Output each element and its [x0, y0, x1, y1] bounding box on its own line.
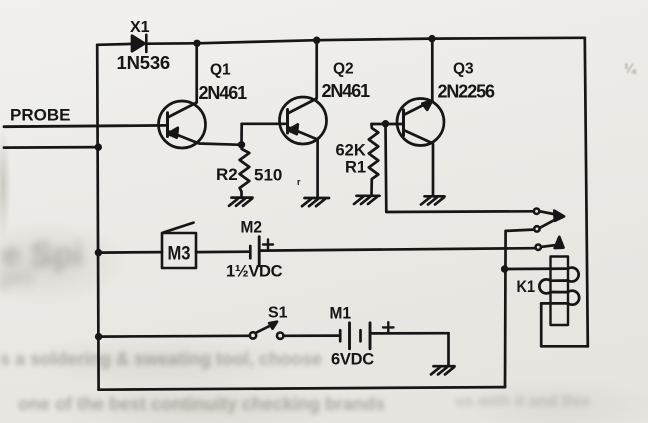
svg-text:6VDC: 6VDC	[331, 351, 374, 369]
svg-text:M2: M2	[241, 218, 263, 237]
svg-text:62K: 62K	[336, 142, 366, 160]
svg-text:Q2: Q2	[333, 61, 354, 78]
svg-text:R1: R1	[345, 159, 366, 177]
svg-text:r: r	[297, 177, 301, 187]
svg-text:PROBE: PROBE	[10, 106, 70, 125]
svg-text:Q3: Q3	[453, 61, 474, 78]
svg-text:1N536: 1N536	[117, 52, 171, 73]
svg-text:2N461: 2N461	[322, 81, 371, 101]
svg-text:X1: X1	[130, 19, 150, 36]
svg-text:M3: M3	[168, 244, 191, 265]
svg-text:1½VDC: 1½VDC	[226, 263, 283, 281]
svg-text:S1: S1	[268, 305, 288, 322]
svg-text:2N2256: 2N2256	[438, 82, 496, 102]
svg-text:R2: R2	[216, 165, 238, 184]
svg-text:K1: K1	[517, 277, 536, 296]
svg-text:510: 510	[254, 166, 282, 185]
svg-text:2N461: 2N461	[199, 83, 248, 103]
svg-text:Q1: Q1	[210, 62, 231, 79]
svg-text:M1: M1	[330, 305, 352, 323]
